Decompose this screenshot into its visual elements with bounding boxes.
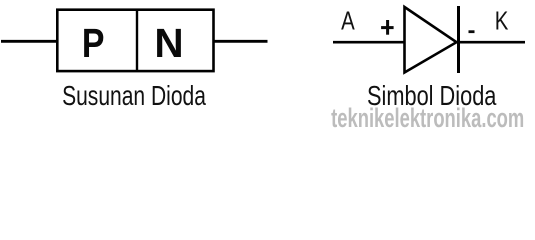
junction divider (P-N boundary) (136, 10, 138, 71)
PN junction block outline (57, 10, 213, 71)
N region label (154, 20, 183, 66)
svg-text:A: A (341, 6, 355, 35)
svg-text:N: N (154, 20, 183, 66)
watermark: teknikelektronika.com (331, 102, 524, 132)
wire (anode lead of diode) (333, 41, 405, 44)
wire (cathode lead of diode) (459, 41, 526, 44)
- polarity label (469, 30, 475, 33)
caption: Simbol Dioda (367, 81, 496, 112)
svg-text:teknikelektronika.com: teknikelektronika.com (331, 102, 524, 132)
wire (left lead of PN block) (1, 40, 58, 43)
diode D1 triangle (anode) (405, 7, 457, 73)
wire (right lead of PN block) (214, 40, 268, 43)
caption: Susunan Dioda (62, 81, 206, 111)
svg-text:Susunan Dioda: Susunan Dioda (62, 81, 206, 111)
P region label (82, 20, 105, 66)
node K label (cathode) (495, 6, 509, 35)
+ polarity label (381, 20, 394, 35)
diode D1 cathode bar (457, 6, 460, 73)
node A label (anode) (341, 6, 355, 35)
svg-text:K: K (495, 6, 509, 35)
svg-text:P: P (82, 20, 105, 66)
